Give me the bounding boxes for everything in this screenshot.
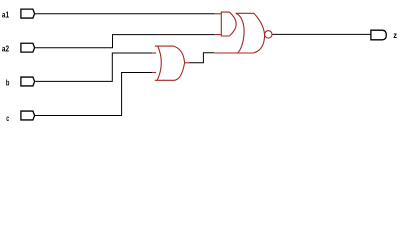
- wire a1 to U1 pin1: [35, 13, 215, 15]
- U2 bottom edge: [155, 63, 185, 81]
- U1 AND section body: [221, 12, 236, 36]
- U2 concave input arc: [157, 46, 161, 80]
- U1 NOR section top edge: [236, 13, 265, 34]
- input port a2: [21, 43, 35, 52]
- wire OR output to U1 pin3: [189, 53, 214, 63]
- U2 top edge: [155, 46, 185, 63]
- wire b to OR gate input 1: [35, 53, 152, 81]
- wire a2 to U1 pin2: [35, 35, 215, 48]
- U2 output pin: [185, 62, 190, 64]
- svg-text:c: c: [6, 113, 9, 123]
- U1 NOR section concave arc: [236, 13, 244, 53]
- U1 NOR section bottom edge + pin 3: [214, 34, 264, 53]
- U1 inversion bubble: [265, 31, 272, 38]
- svg-text:z: z: [393, 30, 397, 40]
- U1 AND section pin 2: [215, 34, 222, 36]
- and-or-invert gate U1: [214, 12, 272, 53]
- wire U1 output to z: [272, 33, 371, 35]
- input port c: [21, 111, 35, 120]
- input port a1: [21, 9, 35, 18]
- svg-text:a2: a2: [2, 44, 9, 54]
- output port z: [371, 30, 386, 40]
- wire c to OR gate input 2: [35, 73, 152, 116]
- or-gate U2 (inputs b,c): [152, 46, 189, 80]
- svg-text:b: b: [6, 77, 10, 87]
- svg-text:a1: a1: [2, 10, 9, 20]
- U2 input pin 2: [152, 72, 156, 74]
- input port b: [21, 77, 35, 86]
- U2 input pin 1: [152, 52, 156, 54]
- U1 AND section pin 1: [215, 13, 222, 15]
